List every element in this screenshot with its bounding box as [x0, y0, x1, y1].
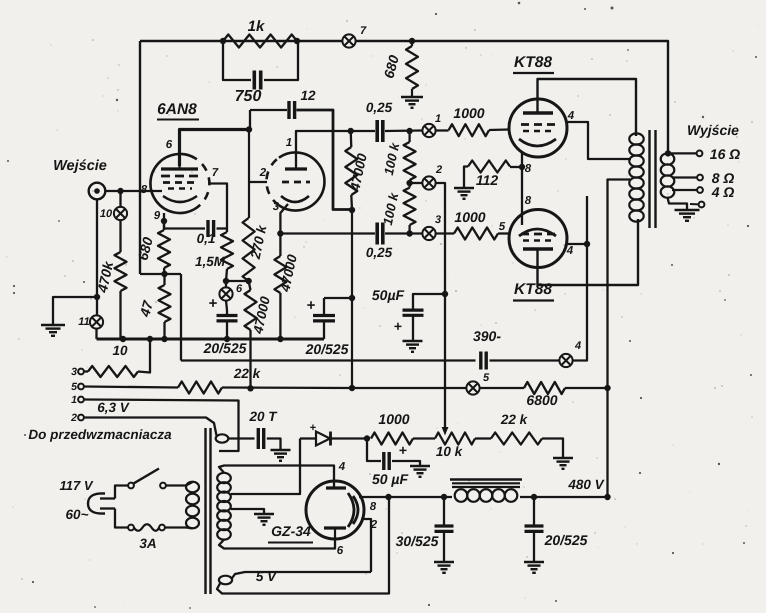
node 270k bottom / 1.5M — [223, 278, 229, 284]
svg-text:5: 5 — [499, 221, 506, 233]
node junction 1k left — [220, 38, 226, 44]
ground 22k — [553, 457, 573, 459]
wire cathode link — [521, 152, 523, 225]
output transformer T2 primary — [629, 133, 643, 144]
wire pin 7 down to 0.1 — [210, 184, 228, 229]
wire sleeve to ground — [53, 297, 97, 325]
terminal 2 — [78, 415, 84, 421]
terminal 3 — [78, 369, 84, 375]
KT88l cathode arc — [519, 229, 556, 236]
node Bplus riser bottom — [349, 385, 355, 391]
wire choke to B+ bus — [520, 496, 608, 498]
wire 4ohm tap — [672, 189, 697, 191]
ground output — [675, 209, 700, 211]
wire grid tap triode2 — [249, 181, 267, 183]
GZ cathode arcs — [348, 493, 354, 527]
svg-text:20/525: 20/525 — [305, 341, 349, 357]
resistor R 100k lower — [408, 183, 410, 188]
resistor R 10 — [84, 370, 88, 372]
triode2 plate bar — [285, 167, 307, 170]
T1 primary winding — [186, 482, 199, 493]
crossed node 2 — [410, 182, 423, 184]
tube V1 KT88 upper — [509, 99, 567, 157]
wire terminal 1 heater — [84, 400, 239, 452]
diode D1 — [300, 437, 316, 439]
svg-text:22 k: 22 k — [233, 366, 262, 381]
crossed node 10 — [119, 191, 121, 207]
svg-text:+: + — [307, 297, 316, 314]
wire common tap to ground — [668, 198, 688, 210]
wire 5V bottom — [217, 497, 389, 594]
crossed node 3 — [422, 227, 435, 240]
wire crossed2 to wiper — [436, 183, 445, 428]
svg-text:6: 6 — [166, 139, 173, 151]
svg-text:6: 6 — [337, 545, 344, 557]
wire HV diode tap — [231, 439, 300, 495]
svg-text:20/525: 20/525 — [544, 532, 588, 548]
svg-text:10: 10 — [112, 343, 128, 358]
svg-text:22 k: 22 k — [500, 412, 529, 427]
wire screen upper to tap — [566, 122, 631, 159]
GZ plate top bar — [326, 486, 346, 489]
terminal 16 ohm — [697, 151, 703, 157]
KT88l plate lead — [538, 219, 639, 285]
triode2 grid dashes — [282, 181, 310, 184]
capacitor C 0.25 lower — [375, 223, 379, 245]
wire to 20T cap — [228, 437, 254, 439]
ground 20T — [271, 449, 291, 451]
fuse 3A — [128, 525, 134, 531]
wire jack sleeve down — [96, 199, 98, 315]
wiper arrow — [442, 427, 449, 436]
crossed node 7 — [342, 34, 355, 47]
svg-text:16 Ω: 16 Ω — [710, 146, 740, 162]
svg-text:1: 1 — [71, 394, 77, 406]
wire feedback join — [140, 273, 181, 275]
node input junction — [117, 188, 123, 194]
svg-text:3: 3 — [273, 201, 280, 213]
ground 30/525 — [434, 561, 454, 563]
capacitor C 0.1 — [206, 220, 209, 237]
resistor R 470k — [119, 220, 121, 252]
wire top feedback bus — [140, 41, 668, 154]
svg-text:1,5M: 1,5M — [195, 254, 226, 269]
svg-text:0,25: 0,25 — [366, 245, 393, 260]
wire to crossed 5 — [352, 387, 466, 389]
svg-text:8: 8 — [370, 501, 377, 513]
svg-text:+: + — [399, 442, 407, 458]
wire 12 left — [250, 109, 287, 111]
svg-text:60~: 60~ — [66, 507, 89, 522]
svg-text:5: 5 — [483, 372, 490, 384]
resistor R 680 cathode — [163, 221, 165, 230]
wire triode2 plate to 0.25 — [296, 131, 375, 166]
svg-text:Wyjście: Wyjście — [687, 122, 739, 138]
wire Bplus riser — [351, 210, 353, 389]
ground of 680 upper — [401, 96, 423, 98]
KT88l plate bar — [523, 247, 553, 250]
triode2 cathode arc — [281, 196, 309, 202]
svg-text:2: 2 — [435, 164, 442, 176]
node 47000b bottom — [247, 385, 253, 391]
6AN8 grid dashes — [163, 181, 196, 184]
svg-text:1000: 1000 — [453, 105, 484, 121]
capacitor C 750 — [253, 71, 257, 90]
crossed node 6 — [225, 281, 227, 288]
wire 16ohm tap — [668, 152, 697, 154]
KT88u cathode arc — [519, 139, 556, 146]
KT88u grid dashes — [521, 123, 555, 126]
svg-text:3: 3 — [435, 214, 441, 226]
node junction 1k right — [294, 38, 300, 44]
ground 50uF second — [410, 465, 430, 467]
svg-text:1000: 1000 — [454, 209, 485, 225]
plug prongs — [100, 497, 115, 499]
svg-text:10: 10 — [100, 208, 113, 220]
GZ plate bottom bar — [324, 526, 346, 529]
T1 heater 6.3 winding — [216, 434, 229, 442]
scan noise — [611, 7, 614, 10]
wire pin9 to 0.1 cap — [164, 213, 205, 229]
wire HV center tap ground — [231, 509, 264, 514]
svg-text:4: 4 — [567, 110, 575, 122]
ground input — [41, 324, 65, 326]
wire pin8 to B+ — [359, 496, 389, 498]
svg-text:5 V: 5 V — [256, 569, 277, 584]
svg-text:KT88: KT88 — [514, 281, 552, 298]
svg-text:1k: 1k — [248, 18, 265, 35]
wire 0.25 to crossed 1 — [385, 129, 422, 132]
wire HV top to GZ plate — [219, 466, 334, 489]
svg-text:0,1: 0,1 — [197, 231, 216, 246]
resistor R 47 — [163, 274, 165, 285]
svg-text:4 Ω: 4 Ω — [711, 184, 735, 200]
power transformer T1 core — [204, 428, 206, 594]
crossed node 11 — [90, 315, 103, 328]
node sleeve — [94, 294, 100, 300]
svg-text:480 V: 480 V — [567, 477, 604, 492]
svg-text:50 µF: 50 µF — [372, 471, 409, 487]
svg-text:1: 1 — [286, 137, 292, 149]
svg-text:+: + — [310, 422, 316, 434]
wire switch to winding — [166, 482, 193, 486]
tube U1 6AN8 pentode section — [150, 154, 195, 213]
6AN8 cathode arc — [163, 196, 197, 202]
resistor R 6800 — [480, 387, 524, 389]
wire fuse to winding — [165, 526, 193, 529]
svg-text:750: 750 — [235, 88, 262, 105]
KT88u plate lead — [538, 79, 637, 136]
node 680 top — [409, 38, 415, 44]
svg-text:+: + — [209, 295, 218, 312]
wire 390 line — [181, 359, 476, 361]
resistor R 1k — [223, 35, 297, 48]
svg-text:9: 9 — [154, 210, 161, 222]
svg-text:4: 4 — [566, 245, 574, 257]
ground 20/525 third — [524, 561, 544, 563]
svg-text:5: 5 — [71, 381, 77, 393]
node 12-cap left junction — [246, 126, 252, 132]
resistor R 22k bias — [491, 433, 542, 445]
svg-text:KT88: KT88 — [514, 54, 552, 71]
T1 HV winding — [217, 473, 231, 483]
svg-text:50µF: 50µF — [372, 287, 405, 303]
KT88l grid dashes — [521, 233, 555, 236]
node pin9 — [161, 218, 167, 224]
svg-text:1000: 1000 — [378, 411, 409, 427]
capacitor C 20/525 second — [323, 298, 325, 316]
wire pin2 down to 5V — [361, 519, 371, 572]
svg-text:Wejście: Wejście — [53, 158, 107, 174]
wire 5V top — [232, 572, 371, 579]
T1 5V winding — [219, 576, 232, 585]
capacitor C 20/525 first — [226, 301, 227, 311]
wire 750 box right — [264, 41, 298, 80]
svg-text:20 T: 20 T — [248, 409, 278, 424]
6AN8 screen dashes — [161, 175, 198, 178]
T2 secondary — [661, 153, 675, 164]
terminal 5 — [78, 384, 84, 390]
resistor R 680 upper — [411, 41, 413, 46]
tube V3 GZ-34 — [306, 481, 364, 539]
node 50uF tap — [442, 291, 448, 297]
node B+ bus 6800 — [604, 385, 610, 391]
capacitor C 50uF second — [367, 439, 381, 462]
svg-text:3: 3 — [71, 366, 77, 378]
svg-text:6,3 V: 6,3 V — [97, 400, 130, 415]
wire terminal 2 heater — [84, 418, 217, 436]
capacitor C 30/525 — [443, 497, 445, 526]
resistor R 22k left — [178, 382, 222, 394]
svg-text:12: 12 — [300, 88, 316, 103]
wire terminal5 to 22k — [84, 387, 178, 388]
svg-text:4: 4 — [338, 461, 346, 473]
svg-text:4: 4 — [574, 340, 581, 352]
wire screen lower — [567, 243, 587, 245]
resistor R 100k upper — [408, 131, 410, 142]
wire 20/525-2 top to Bplus riser — [324, 297, 352, 299]
wire 12cap right branch — [297, 110, 353, 210]
svg-text:6AN8: 6AN8 — [157, 101, 197, 118]
tube U1 6AN8 triode section — [279, 152, 325, 210]
resistor R 47000 dropping — [249, 281, 251, 290]
capacitor C 12 — [287, 101, 290, 119]
resistor R 1000 bias — [371, 433, 413, 445]
svg-text:10 k: 10 k — [436, 444, 464, 459]
svg-text:3A: 3A — [139, 536, 156, 551]
svg-text:6: 6 — [236, 283, 243, 295]
svg-text:2: 2 — [259, 167, 267, 179]
crossed node 1 — [422, 124, 435, 137]
resistor R 47000 plate load (x=352) — [350, 131, 353, 147]
capacitor C 20T — [257, 428, 260, 449]
svg-text:GZ-34: GZ-34 — [271, 523, 311, 539]
wire grid-leak vertical — [248, 130, 250, 219]
wire 22k to node — [222, 386, 352, 389]
ground 112 — [454, 187, 474, 189]
wire crossed4 to screen tap — [573, 196, 587, 361]
wire 0.1 right to 1.5M top — [217, 227, 228, 229]
wire 8ohm tap — [672, 176, 697, 178]
wire input to grid — [105, 190, 162, 192]
T2 core — [648, 130, 650, 228]
potentiometer R 10k — [435, 433, 475, 445]
wire 750 box left — [223, 41, 251, 80]
ground 50uF first — [403, 340, 423, 342]
tube V2 KT88 lower — [509, 210, 567, 268]
svg-text:2: 2 — [70, 412, 77, 424]
resistor R 47000 cathode2 — [279, 234, 281, 257]
wire B+ down right — [604, 494, 610, 500]
svg-text:7: 7 — [212, 167, 219, 179]
crossed node 4 — [490, 359, 560, 361]
svg-text:1: 1 — [435, 113, 441, 125]
resistor R 112 — [510, 166, 522, 168]
svg-text:30/525: 30/525 — [396, 533, 439, 549]
node cathode 680/47/feedback — [161, 271, 167, 277]
crossed node 5 — [466, 381, 479, 394]
capacitor C 390 — [479, 352, 482, 370]
T2 center tap to B+ — [608, 180, 631, 498]
KT88u plate bar — [523, 111, 553, 114]
svg-text:Do przedwzmacniacza: Do przedwzmacniacza — [28, 427, 172, 442]
switch S1 — [128, 483, 134, 489]
wire HV bottom to GZ plate2 — [219, 538, 335, 549]
wire cathode pin3 — [280, 204, 288, 234]
svg-text:390-: 390- — [473, 328, 501, 344]
terminal 1 — [78, 397, 84, 403]
wire 0.25 lower line — [280, 232, 375, 234]
svg-text:8: 8 — [525, 163, 532, 175]
svg-text:117 V: 117 V — [59, 478, 93, 493]
ground bus horizontal — [97, 338, 325, 341]
wire pin6 to node — [180, 130, 250, 167]
resistor R 270k — [243, 218, 255, 281]
svg-text:+: + — [394, 318, 402, 334]
svg-text:6800: 6800 — [526, 392, 557, 408]
resistor R 1.5M — [226, 229, 228, 233]
svg-text:7: 7 — [360, 25, 367, 37]
svg-text:11: 11 — [78, 316, 89, 328]
svg-text:0,25: 0,25 — [366, 100, 393, 115]
resistor R 1000 lower — [436, 232, 454, 234]
capacitor C 20/525 third — [533, 497, 535, 526]
wire left vertical from top bus — [139, 41, 141, 274]
svg-text:112: 112 — [476, 172, 499, 188]
choke L1 — [450, 478, 522, 481]
wire to 390 line vertical — [180, 274, 182, 361]
wire B+ line to choke — [389, 496, 453, 498]
resistor R 1000 upper — [436, 129, 449, 131]
svg-text:20/525: 20/525 — [203, 340, 247, 356]
svg-text:8: 8 — [525, 195, 532, 207]
6AN8 plate bar — [161, 167, 198, 170]
